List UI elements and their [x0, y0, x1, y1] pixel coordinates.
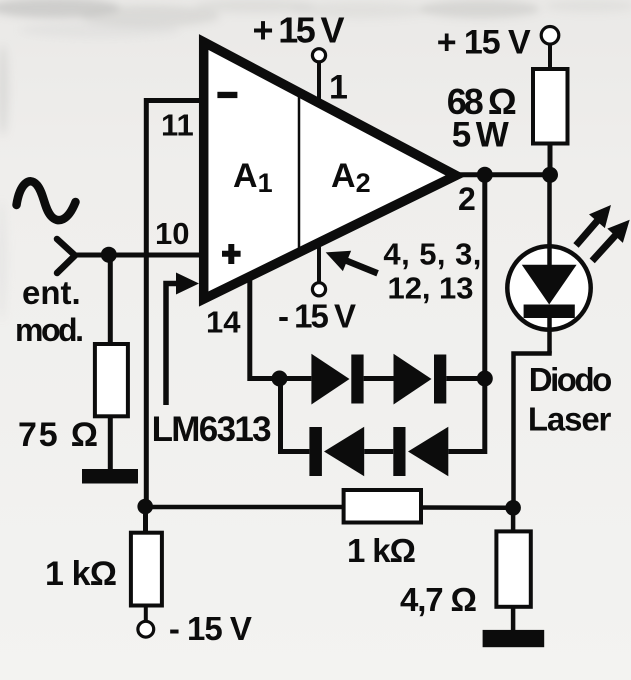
svg-text:10: 10: [155, 216, 189, 251]
wire D3 to D4: [364, 449, 393, 454]
node 68 ohm bottom: [542, 167, 558, 183]
wire resistor to bottom right node: [421, 505, 513, 510]
wire bottom horizontal left: [145, 505, 345, 510]
wire 1k vertical to terminal: [144, 606, 148, 622]
node bottom right: [505, 500, 521, 516]
pin negative supply stub: [317, 244, 321, 282]
svg-text:+ 15 V: + 15 V: [437, 23, 531, 61]
wire pin 14 to diode network: [250, 278, 312, 379]
laser emission arrow 1: [568, 198, 619, 252]
svg-text:1: 1: [329, 68, 348, 106]
resistor 4.7 ohm: [496, 531, 530, 606]
svg-text:ent.: ent.: [22, 274, 81, 311]
op-amp internal divider: [298, 93, 301, 252]
ground (output): [483, 630, 545, 647]
laser diode cathode bar: [524, 305, 575, 319]
svg-text:14: 14: [206, 305, 241, 340]
wire junction to 75 ohm: [108, 255, 113, 346]
node diode right junction: [477, 371, 493, 387]
scan noise top band: [0, 0, 631, 320]
svg-text:Laser: Laser: [528, 401, 612, 438]
ground (input): [82, 469, 138, 484]
wire terminal to 68 ohm: [548, 44, 552, 71]
resistor 1k horizontal: [344, 490, 421, 523]
svg-text:- 15 V: - 15 V: [169, 610, 252, 647]
wire input to pin 10: [75, 253, 206, 258]
node input junction: [101, 247, 117, 263]
diode D1: [311, 354, 349, 405]
wire output node to laser diode: [547, 175, 552, 265]
wire 68 ohm to output node: [548, 144, 553, 175]
node diode left junction: [272, 371, 288, 387]
node output: [477, 167, 493, 183]
wire feedback pin 11 down to bottom node: [146, 101, 206, 507]
wire D1 to D2: [364, 376, 394, 381]
wire D2 to right node: [446, 376, 487, 381]
svg-text:5 W: 5 W: [452, 116, 509, 155]
wire 75 ohm to ground: [108, 416, 113, 471]
resistor 68 ohm: [533, 69, 568, 144]
laser emission arrow 2: [584, 213, 631, 268]
svg-text:4, 5, 3,: 4, 5, 3,: [383, 237, 481, 272]
op-amp U1 triangle body: [204, 42, 456, 299]
wire bottom row left branch: [281, 379, 310, 452]
minus input symbol: [217, 92, 237, 98]
terminal -15V (bottom): [138, 621, 154, 637]
svg-text:LM6313: LM6313: [152, 410, 272, 449]
laser diode cathode wire: [547, 318, 552, 354]
wire 4.7 ohm to ground: [511, 607, 516, 632]
pin 1 supply stub: [317, 60, 321, 106]
resistor 75 ohm: [95, 344, 128, 416]
svg-text:4,7 Ω: 4,7 Ω: [400, 581, 477, 618]
terminal +15V (68 ohm): [541, 27, 559, 45]
AC source sine symbol: [17, 181, 76, 220]
resistor 1k vertical: [131, 533, 162, 606]
laser diode anode triangle: [522, 265, 577, 305]
svg-text:Diodo: Diodo: [529, 361, 613, 398]
diode D3: [309, 427, 322, 476]
svg-text:2: 2: [458, 181, 476, 217]
wire D4 to feedback line: [448, 175, 485, 452]
laser diode anode wire inside: [547, 248, 552, 266]
arrow LM6313 to op-amp: [166, 284, 178, 406]
node bottom left: [137, 499, 153, 515]
diode D4: [393, 427, 405, 476]
svg-text:1 kΩ: 1 kΩ: [347, 532, 416, 569]
input terminal chevron: [57, 239, 75, 273]
wire node to 1k vertical: [143, 507, 148, 534]
wire op-amp output: [456, 172, 550, 177]
svg-text:- 15 V: - 15 V: [278, 298, 356, 335]
wire bottom right node to 4.7 ohm: [511, 508, 516, 533]
svg-text:1 kΩ: 1 kΩ: [45, 555, 117, 593]
arrow to supply pins: [322, 242, 382, 283]
plus input symbol: [222, 244, 241, 264]
svg-text:12, 13: 12, 13: [388, 271, 474, 306]
wire laser cathode jog to bottom node: [514, 351, 550, 508]
terminal -15V (op-amp): [312, 283, 325, 296]
svg-text:+ 15 V: + 15 V: [253, 10, 345, 51]
svg-text:mod.: mod.: [15, 312, 84, 348]
terminal +15V (pin 1): [312, 49, 325, 62]
svg-text:11: 11: [161, 108, 194, 143]
laser diode LD1 body: [507, 246, 590, 329]
diode D2: [394, 354, 432, 405]
